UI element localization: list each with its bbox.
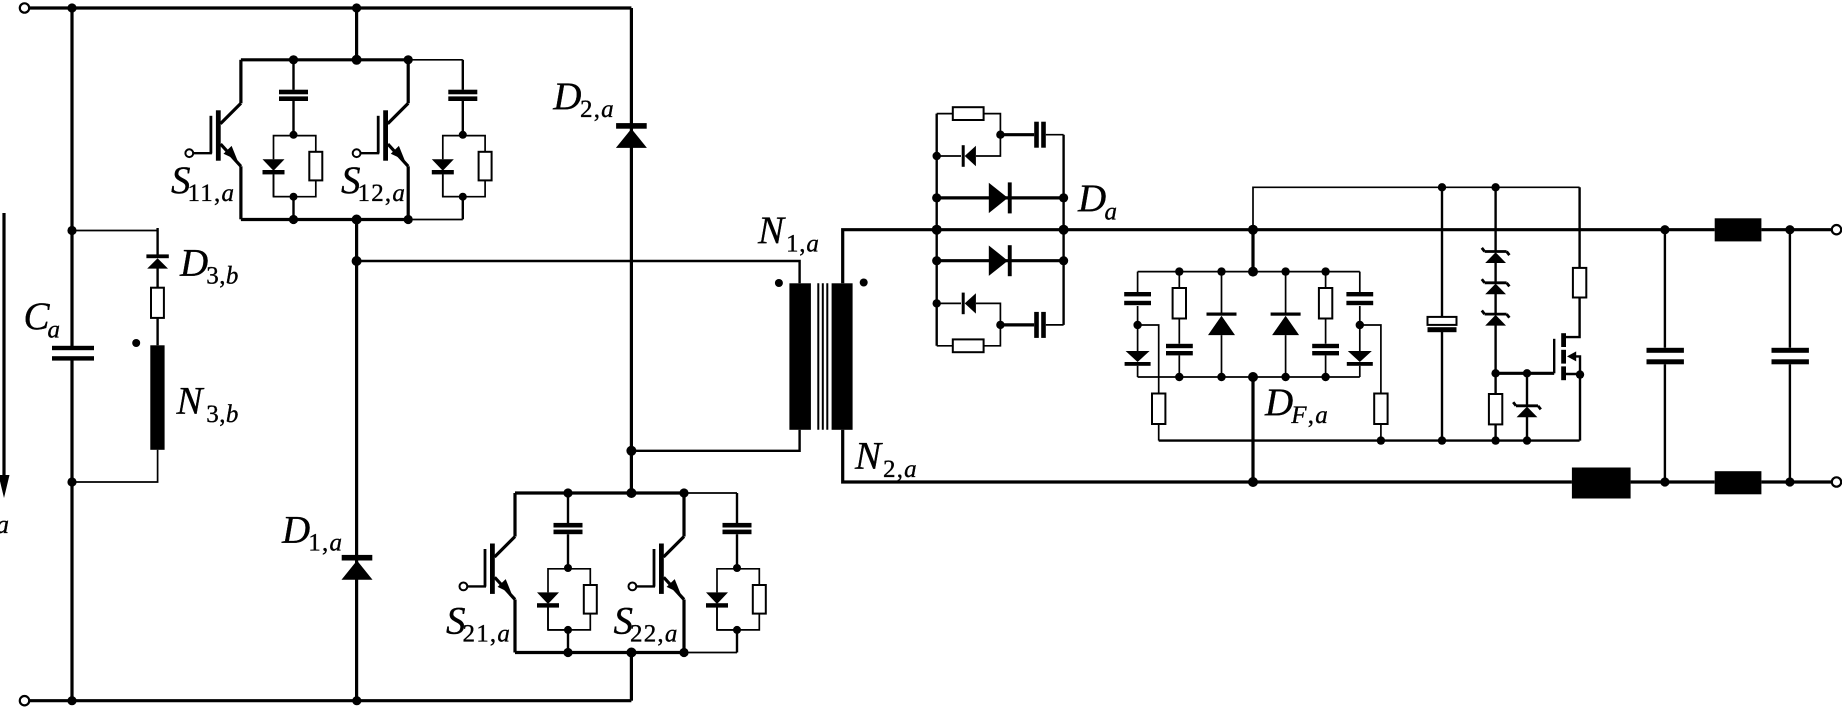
capacitor Ca bbox=[52, 346, 94, 361]
svg-text:N: N bbox=[176, 380, 205, 423]
svg-text:3,b: 3,b bbox=[206, 263, 238, 290]
node Da bottom snubber bbox=[996, 321, 1004, 329]
wire resistor to winding bbox=[156, 318, 158, 345]
node left bus top bbox=[67, 226, 76, 235]
diode Da upper bbox=[937, 182, 1064, 213]
wire DFa top rail bbox=[1138, 271, 1360, 273]
output terminal top bbox=[1832, 225, 1841, 234]
diode D1a bbox=[342, 555, 373, 580]
wire D3b branch top bbox=[72, 231, 158, 255]
winding N3b bbox=[150, 345, 164, 450]
svg-text:3,b: 3,b bbox=[206, 401, 238, 428]
inductor block output bottom bbox=[1715, 471, 1762, 494]
node dots Da right bus bbox=[1059, 193, 1069, 265]
snubber RCD of S22a bbox=[706, 493, 766, 653]
mosfet Q gate bbox=[1553, 339, 1555, 374]
resistor gate bleed bbox=[1489, 373, 1502, 440]
polarity dot N1a bbox=[775, 279, 783, 287]
svg-text:D: D bbox=[179, 242, 208, 285]
DFa left clamp diode bbox=[1125, 325, 1151, 377]
mosfet Q body arrow bbox=[1567, 351, 1580, 374]
node output rail left cap bbox=[1660, 225, 1669, 234]
label Ca bbox=[24, 295, 61, 344]
svg-text:D: D bbox=[281, 509, 310, 552]
svg-text:2,a: 2,a bbox=[580, 96, 615, 123]
node DFa on negative rail bbox=[1248, 477, 1258, 487]
label DFa bbox=[1264, 381, 1329, 429]
svg-text:22,a: 22,a bbox=[630, 621, 679, 648]
node dots Da left bus bbox=[932, 152, 942, 308]
input terminal top-left bbox=[20, 3, 29, 12]
input terminal bottom-left bbox=[20, 696, 29, 705]
zener diode 2 bbox=[1482, 279, 1510, 294]
node gate drive left bbox=[1491, 369, 1499, 377]
svg-text:2,a: 2,a bbox=[883, 456, 918, 483]
wire DFa center bottom bbox=[1251, 377, 1254, 482]
node phase A to transformer bbox=[352, 256, 362, 266]
wire bottom bridge bottom rail bbox=[515, 651, 737, 654]
inductor block negative rail bbox=[1572, 468, 1631, 499]
wire gate net bbox=[1496, 372, 1555, 375]
DFa left capacitor bbox=[1124, 272, 1151, 325]
svg-text:D: D bbox=[1077, 177, 1106, 220]
resistor in D3b branch bbox=[151, 288, 164, 318]
label N1a bbox=[757, 209, 820, 257]
node bottom bridge rail dots bbox=[563, 488, 688, 658]
DFa left RC column resistor bbox=[1173, 272, 1186, 319]
wire top bridge top rail bbox=[241, 58, 463, 61]
DFa left RC column capacitor bbox=[1166, 319, 1193, 378]
wire DFa left sub branch bbox=[1138, 325, 1159, 393]
rectifier Da left bus bbox=[936, 114, 938, 346]
zener diode 3 bbox=[1482, 311, 1510, 326]
wire bottom bridge top rail bbox=[515, 491, 737, 494]
wire D2a node to bottom bridge bbox=[630, 451, 633, 493]
svg-text:C: C bbox=[24, 295, 51, 338]
output capacitor 2 bbox=[1772, 230, 1809, 482]
label a (cropped voltage label) bbox=[0, 510, 9, 539]
node DFa left bbox=[1133, 321, 1141, 329]
svg-text:a: a bbox=[48, 317, 61, 344]
node bottom rail left bbox=[67, 696, 76, 705]
zener diode 1 bbox=[1482, 248, 1510, 263]
DFa right capacitor bbox=[1346, 272, 1373, 325]
Da bottom snubber diode bbox=[937, 293, 1001, 325]
wire DFa bottom rail bbox=[1138, 376, 1360, 378]
wire DFa right sub branch bbox=[1360, 325, 1381, 393]
inductor block output top bbox=[1715, 218, 1762, 241]
label S21a bbox=[446, 600, 511, 648]
label D3b bbox=[179, 242, 239, 290]
rectifier Da right bus bbox=[1062, 135, 1064, 325]
transistor S12a bbox=[353, 60, 409, 220]
mosfet Q channel bbox=[1561, 333, 1566, 380]
output terminal bottom bbox=[1832, 477, 1841, 486]
wire secondary bottom bbox=[843, 430, 1572, 482]
node gate zener bbox=[1523, 369, 1531, 377]
snubber RCD of S21a bbox=[537, 493, 597, 653]
zener gate protection bbox=[1513, 373, 1541, 440]
mosfet Q drain bbox=[1566, 297, 1580, 337]
label N3b bbox=[176, 380, 239, 428]
transistor S22a bbox=[629, 493, 685, 653]
wire D2a leg vertical bbox=[630, 8, 633, 451]
svg-text:D: D bbox=[552, 75, 581, 118]
Da bottom snubber capacitor bbox=[1000, 312, 1063, 338]
node bottom rail at D1a bbox=[352, 696, 361, 705]
node dots DFa top rail bbox=[1175, 267, 1330, 277]
node top rail left bbox=[67, 3, 76, 12]
svg-text:a: a bbox=[0, 510, 9, 539]
DFa right clamp diode bbox=[1347, 325, 1373, 377]
wire DFa center top bbox=[1251, 230, 1254, 272]
node top bridge rail dots bbox=[289, 55, 413, 225]
label Da bbox=[1077, 177, 1117, 225]
label S12a bbox=[341, 159, 406, 207]
wire rail to terminal top bbox=[1761, 228, 1832, 231]
polarity dot N3b bbox=[132, 339, 140, 347]
node DFa right bbox=[1356, 321, 1364, 329]
wire bottom rail bbox=[29, 699, 631, 702]
wire D3b branch bottom bbox=[72, 450, 158, 482]
node tap wire dots bbox=[1438, 183, 1500, 191]
snubber RCD of S12a bbox=[432, 60, 492, 220]
wire zener chain branch bbox=[1494, 187, 1496, 373]
wire primary bottom bbox=[631, 430, 799, 451]
node rail at DFa bbox=[1248, 225, 1258, 235]
transformer core bbox=[818, 283, 827, 430]
Da top snubber diode bbox=[937, 135, 1001, 167]
polarity dot N2a bbox=[860, 279, 868, 287]
Da bottom snubber resistor bbox=[937, 325, 1001, 352]
svg-text:F,a: F,a bbox=[1290, 402, 1329, 429]
node top rail center bbox=[352, 3, 361, 12]
transformer winding N2a bbox=[832, 283, 853, 430]
wire negative rail right bbox=[1631, 480, 1715, 483]
node dots snubber bus bbox=[1377, 436, 1532, 444]
Da top snubber capacitor bbox=[1000, 122, 1063, 148]
node left bus bottom bbox=[67, 477, 76, 486]
label N2a bbox=[854, 435, 918, 483]
wire phase leg A vertical bbox=[355, 220, 358, 701]
svg-text:N: N bbox=[854, 435, 883, 478]
svg-text:12,a: 12,a bbox=[358, 180, 407, 207]
snubber RCD of S11a bbox=[263, 60, 323, 220]
node dots DFa bottom rail bbox=[1175, 372, 1330, 382]
transformer winding N1a bbox=[789, 283, 811, 430]
resistor drain bbox=[1573, 187, 1586, 297]
wire bottom bridge to bottom rail bbox=[630, 653, 633, 701]
wire top bridge bottom rail bbox=[241, 218, 463, 221]
wire primary top bbox=[357, 261, 800, 283]
label S11a bbox=[171, 159, 235, 207]
svg-text:11,a: 11,a bbox=[188, 180, 236, 207]
output capacitor 1 bbox=[1647, 230, 1684, 482]
Da top snubber resistor bbox=[937, 107, 1001, 135]
label S22a bbox=[614, 600, 679, 648]
svg-text:a: a bbox=[1105, 198, 1118, 225]
mosfet Q source bbox=[1566, 374, 1580, 441]
wire tap above rail bbox=[1253, 187, 1580, 229]
diode DFa right bbox=[1271, 272, 1301, 377]
diode D2a bbox=[616, 123, 647, 148]
diode Da lower bbox=[937, 245, 1064, 276]
wire Da center row bbox=[937, 228, 1064, 231]
label D2a bbox=[552, 75, 615, 123]
transistor S11a bbox=[185, 60, 241, 220]
svg-text:21,a: 21,a bbox=[463, 621, 512, 648]
wire top bridge center drop bbox=[355, 8, 358, 60]
node source bbox=[1576, 370, 1584, 378]
resistor DFa left sub bbox=[1152, 394, 1165, 441]
wire snubber common bus bbox=[1159, 439, 1580, 441]
wire secondary top bbox=[843, 230, 937, 284]
electrolytic capacitor bbox=[1428, 317, 1457, 332]
svg-text:1,a: 1,a bbox=[786, 231, 820, 258]
DFa right RC column capacitor bbox=[1312, 319, 1339, 378]
diode D3b bbox=[146, 228, 168, 288]
DFa right RC column resistor bbox=[1319, 272, 1332, 319]
node negative rail right cap bbox=[1785, 477, 1794, 486]
wire output positive rail bbox=[1064, 228, 1715, 231]
transistor S21a bbox=[460, 493, 516, 653]
voltage arrow left edge bbox=[0, 213, 10, 498]
node Da top snubber bbox=[996, 131, 1004, 139]
svg-text:1,a: 1,a bbox=[308, 530, 343, 557]
diode DFa left bbox=[1207, 272, 1237, 377]
wire left bus vertical bbox=[70, 8, 73, 701]
svg-text:N: N bbox=[757, 209, 786, 252]
label D1a bbox=[281, 509, 343, 557]
node output rail right cap bbox=[1785, 225, 1794, 234]
svg-text:D: D bbox=[1264, 381, 1293, 424]
wire top rail bbox=[29, 6, 631, 9]
wire electrolytic cap branch bbox=[1441, 187, 1443, 440]
resistor DFa right sub bbox=[1374, 394, 1387, 441]
node negative rail left cap bbox=[1660, 477, 1669, 486]
node primary bottom bbox=[626, 446, 636, 456]
wire negative rail to terminal bbox=[1761, 480, 1832, 483]
